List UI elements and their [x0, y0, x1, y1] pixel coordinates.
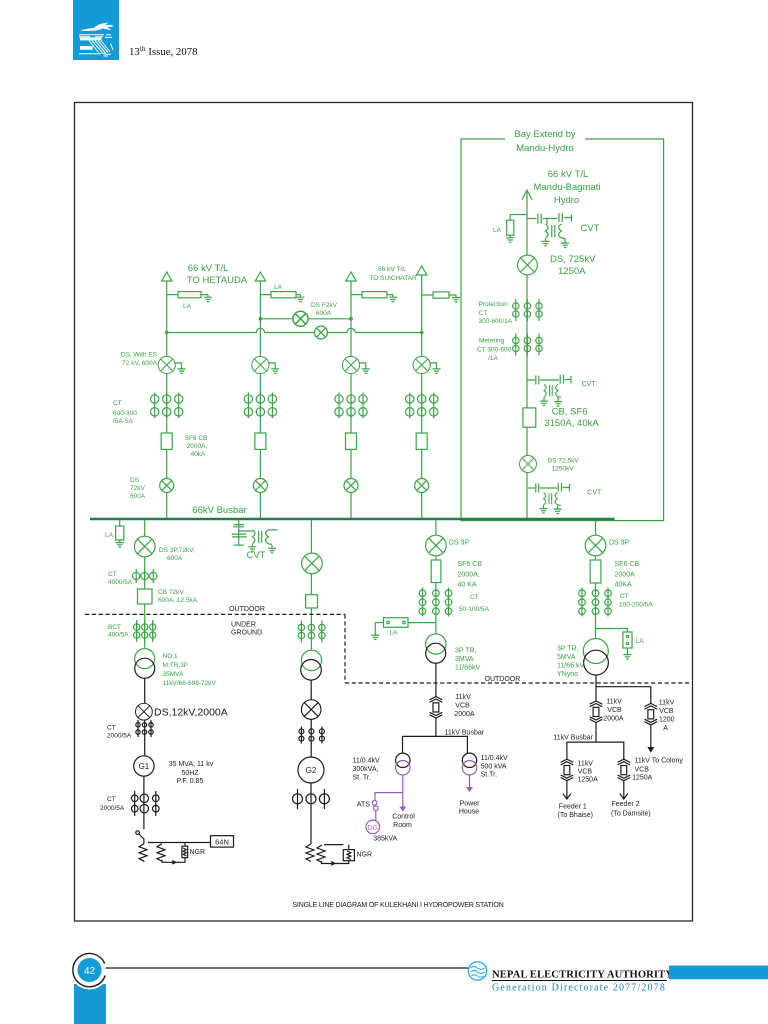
relay box 64N	[211, 836, 234, 847]
wire B2 vertical green	[310, 520, 312, 651]
svg-text:Hydro: Hydro	[554, 195, 579, 206]
transformer 3P TR 3MVA	[426, 634, 446, 654]
svg-text:St.Tr.: St.Tr.	[481, 772, 498, 779]
svg-text:Control: Control	[392, 814, 415, 821]
wire B4 black down + colony branch	[596, 675, 651, 703]
svg-text:YNyno: YNyno	[557, 671, 578, 678]
svg-text:2000A: 2000A	[454, 711, 475, 718]
wire LA branch Mandu	[510, 215, 527, 221]
svg-text:SINGLE LINE DIAGRAM OF KULEKHA: SINGLE LINE DIAGRAM OF KULEKHANI I HYDRO…	[292, 901, 503, 909]
svg-text:11kV Busbar: 11kV Busbar	[553, 735, 593, 742]
svg-text:VCB: VCB	[659, 708, 674, 715]
breaker SF6 CB T2	[255, 433, 266, 449]
svg-text:CVT: CVT	[581, 223, 600, 234]
svg-text:1250A: 1250A	[558, 266, 586, 277]
CT bay T1	[151, 393, 183, 419]
svg-text:Power: Power	[460, 801, 481, 808]
CT metering Mandu	[513, 333, 543, 355]
svg-text:CB, SF6: CB, SF6	[552, 407, 588, 418]
svg-text:2000A,: 2000A,	[187, 443, 208, 450]
CT bay T2	[244, 393, 276, 419]
svg-text:11kV/66-698-72kV: 11kV/66-698-72kV	[163, 680, 217, 687]
node junction T3 upper tie	[349, 317, 353, 321]
disconnector DS 3P B4	[585, 535, 606, 556]
svg-text:72 kV, 600A: 72 kV, 600A	[122, 360, 157, 367]
transformer St.Tr 300kVA	[396, 753, 410, 767]
surge arrester LA B3	[384, 618, 409, 628]
svg-text:VCB: VCB	[455, 703, 470, 710]
node: line arrow triangle T2	[255, 272, 265, 281]
svg-text:72kV: 72kV	[130, 485, 145, 492]
breaker CB SF6 Mandu	[523, 408, 536, 427]
svg-text:11/66kV: 11/66kV	[455, 665, 480, 672]
transformer No.2	[301, 650, 321, 670]
NGR branch G2	[324, 844, 343, 846]
svg-text:385kVA: 385kVA	[373, 836, 397, 843]
ground T3 LA	[389, 295, 397, 302]
svg-text:13th Issue, 2078: 13th Issue, 2078	[129, 44, 198, 58]
CT B3 (3 rows)	[419, 588, 452, 617]
surge arrester LA at busbar left	[119, 520, 121, 526]
breaker SF6 CB T4	[416, 433, 427, 449]
svg-text:11kV To Colony: 11kV To Colony	[635, 758, 684, 765]
svg-text:LA: LA	[183, 303, 192, 310]
svg-text:CVT: CVT	[582, 381, 597, 388]
breaker SF6 CB T1	[161, 433, 172, 449]
CT B2 upper	[299, 727, 325, 744]
svg-text:CT 300-600: CT 300-600	[477, 347, 512, 354]
disconnector DS 12kV black	[136, 703, 153, 720]
svg-text:P.F. 0.85: P.F. 0.85	[177, 778, 204, 785]
svg-text:DS,12kV,2000A: DS,12kV,2000A	[154, 707, 228, 719]
footer blue bar right	[669, 966, 768, 980]
svg-text:DS F2kV: DS F2kV	[311, 302, 338, 309]
svg-text:66kV Busbar: 66kV Busbar	[192, 505, 246, 516]
svg-text:House: House	[459, 809, 479, 816]
wire below G1	[143, 776, 145, 829]
BCT B2	[298, 621, 325, 643]
svg-text:SF6 CB: SF6 CB	[615, 561, 640, 568]
busbar 11kV B3	[403, 736, 468, 753]
CVT 3 Mandu	[528, 483, 570, 514]
svg-text:11/0.4kV: 11/0.4kV	[481, 755, 508, 762]
CT B4 (3 rows)	[579, 588, 612, 617]
svg-text:Protection: Protection	[479, 301, 509, 308]
breaker VCB 1250A feeder1	[561, 759, 574, 781]
wire LA branch T4	[422, 294, 456, 296]
footer blue tab	[74, 984, 106, 1024]
CVT at 66kV busbar	[232, 520, 278, 553]
svg-text:3P TR,: 3P TR,	[455, 648, 477, 655]
svg-text:600A: 600A	[130, 493, 146, 500]
svg-text:11kV: 11kV	[455, 694, 471, 701]
svg-text:Mandu-Hydro: Mandu-Hydro	[516, 143, 574, 154]
NGR coil 1 G2	[306, 844, 314, 862]
breaker SF6 CB T3	[346, 433, 357, 449]
svg-text:CVT: CVT	[247, 550, 266, 561]
svg-text:TO SUICHATAR: TO SUICHATAR	[369, 275, 417, 282]
disconnector DS with ES T1	[158, 356, 175, 373]
ground LA Mandu	[506, 235, 514, 242]
svg-text:NO.1: NO.1	[163, 653, 179, 660]
wire B1 vertical green	[144, 520, 146, 649]
svg-text:Feeder 1: Feeder 1	[559, 803, 587, 810]
wire LA branch T2	[260, 294, 300, 296]
generator G2	[298, 757, 324, 783]
NEA footer logo	[468, 962, 486, 980]
svg-text:UNDER: UNDER	[231, 621, 256, 628]
generator G1	[134, 756, 154, 776]
svg-text:400/5A: 400/5A	[108, 632, 129, 639]
svg-text:1200: 1200	[659, 717, 675, 724]
svg-text:5MVA: 5MVA	[557, 654, 576, 661]
svg-text:2000A: 2000A	[603, 716, 624, 723]
surge arrester LA T1	[178, 292, 201, 298]
disconnector DS with ES T2	[252, 356, 269, 373]
svg-text:CT: CT	[113, 400, 122, 407]
svg-text:/1A: /1A	[488, 355, 498, 362]
switch ATS	[372, 801, 377, 806]
svg-text:DS 3P: DS 3P	[449, 539, 470, 546]
svg-text:Room: Room	[393, 822, 412, 829]
svg-text:35 MVA; 11 kv: 35 MVA; 11 kv	[169, 761, 214, 768]
disconnector DS T3	[344, 479, 358, 493]
disconnector DS T2	[253, 479, 267, 493]
svg-text:2000A,: 2000A,	[458, 572, 480, 579]
svg-text:CT: CT	[620, 593, 629, 600]
svg-text:50HZ: 50HZ	[181, 770, 199, 777]
wire LA branch T3	[351, 294, 393, 296]
transformer 3P TR 5MVA	[583, 639, 608, 664]
svg-text:Generation Directorate 2077/20: Generation Directorate 2077/2078	[492, 983, 666, 994]
svg-text:VCB: VCB	[635, 766, 650, 773]
ground T4 LA	[452, 295, 460, 302]
wire LA branch B3	[408, 622, 436, 624]
disconnector DS B2 black	[301, 700, 321, 720]
transformer St.Tr 500kVA	[462, 753, 476, 767]
ground T2 LA	[296, 295, 304, 302]
svg-text:LA: LA	[274, 284, 283, 291]
wire B3 black vertical	[435, 663, 437, 696]
breaker CB 72kV B1	[138, 589, 153, 604]
svg-text:11kV Busbar: 11kV Busbar	[445, 730, 485, 737]
svg-text:4000/5A: 4000/5A	[108, 579, 133, 586]
svg-text:Bay Extend by: Bay Extend by	[514, 129, 576, 140]
svg-text:DS 3P,72kV,: DS 3P,72kV,	[159, 547, 195, 554]
wire bus tie lower with hops	[167, 328, 422, 332]
wire B4 vertical green	[595, 520, 597, 639]
surge arrester LA B4	[623, 632, 632, 648]
CT bay T4	[406, 393, 438, 419]
svg-text:LA: LA	[105, 532, 114, 539]
node: line arrow triangle T4	[417, 266, 427, 275]
switch on G1 neutral	[136, 831, 140, 835]
wire purple control room	[375, 775, 403, 807]
transformer M.TR No.1	[135, 649, 155, 669]
svg-text:DS: DS	[130, 477, 140, 484]
svg-text:1250kV: 1250kV	[552, 466, 575, 473]
disconnector DS B2	[302, 553, 323, 574]
CVT 2 Mandu	[527, 375, 571, 406]
svg-text:66 kV T/L: 66 kV T/L	[548, 169, 589, 180]
svg-text:G2: G2	[306, 766, 317, 775]
disconnector DS 72.5kV Mandu	[520, 456, 537, 473]
wire B1 black vertical	[144, 678, 146, 756]
CT 2000/5A lower B1	[131, 791, 159, 816]
svg-text:CT: CT	[108, 571, 117, 578]
surge arrester LA T4	[433, 292, 449, 298]
disconnector DS F2kV on upper tie	[293, 311, 308, 326]
svg-text:1250A: 1250A	[632, 775, 653, 782]
breaker VCB 2000A B3	[430, 697, 443, 719]
svg-text:Metering: Metering	[479, 338, 505, 345]
node junction T2 upper tie	[259, 317, 263, 321]
wire LA branch B4	[596, 629, 628, 633]
BCT 400/5A B1	[134, 620, 156, 642]
svg-text:CT: CT	[470, 594, 479, 601]
svg-text:600-300: 600-300	[113, 410, 137, 417]
svg-text:DS 3P: DS 3P	[609, 539, 630, 546]
busbar 66kV	[90, 518, 615, 521]
svg-text:LA: LA	[493, 227, 502, 234]
CT bay T3	[335, 393, 367, 419]
wire arrow feeder1	[563, 781, 571, 799]
svg-text:OUTDOOR: OUTDOOR	[229, 606, 265, 613]
svg-text:11kV: 11kV	[606, 699, 622, 706]
svg-text:50-100/5A: 50-100/5A	[459, 606, 490, 613]
wire to 11kV busbar B3	[435, 718, 437, 736]
boundary dashed line left	[85, 614, 690, 683]
svg-text:Mandu-Bagmati: Mandu-Bagmati	[533, 182, 600, 193]
svg-text:(To Bhaise): (To Bhaise)	[558, 812, 593, 819]
svg-text:CT: CT	[107, 796, 116, 803]
svg-text:DG: DG	[368, 825, 378, 832]
disconnector DS with ES T4	[413, 356, 430, 373]
page number circle	[73, 954, 105, 987]
wire arrow power house	[469, 775, 471, 788]
wire bay T3 vertical	[350, 281, 352, 519]
svg-text:OUTDOOR: OUTDOOR	[485, 676, 521, 683]
svg-text:DS, With ES: DS, With ES	[121, 351, 158, 358]
footer rule	[106, 967, 469, 969]
svg-text:66 kV T/L: 66 kV T/L	[378, 266, 406, 273]
svg-text:Feeder 2: Feeder 2	[612, 801, 640, 808]
wire arrow feeder2	[620, 781, 628, 799]
wire ATS to DG	[375, 811, 377, 821]
svg-text:2000/5A: 2000/5A	[107, 733, 132, 740]
disconnector DS with ES T3	[342, 356, 359, 373]
svg-text:42: 42	[84, 966, 96, 977]
box Bay Extend by Mandu-Hydro	[461, 139, 664, 521]
NGR coil 2 G2	[317, 845, 325, 863]
busbar 11kV B4	[567, 742, 624, 759]
surge arrester LA Mandu	[507, 220, 514, 235]
wire B2 black vertical	[310, 680, 312, 757]
svg-text:3150A, 40kA: 3150A, 40kA	[544, 418, 599, 429]
svg-text:2000/5A: 2000/5A	[100, 805, 125, 812]
header blue logo box	[73, 0, 119, 60]
wire bus tie upper	[260, 318, 351, 320]
CVT 1 Mandu (capacitor stack + windings)	[527, 213, 572, 248]
disconnector DS 3P B3	[426, 535, 447, 556]
svg-text:11/66 kV: 11/66 kV	[557, 663, 584, 670]
wire VCB to 11kV busbar B4	[595, 723, 597, 743]
svg-text:M.TR,3P: M.TR,3P	[163, 662, 189, 669]
svg-text:300-600/1A: 300-600/1A	[479, 318, 513, 325]
svg-text:500 kVA: 500 kVA	[481, 763, 507, 770]
svg-text:300kVA,: 300kVA,	[353, 766, 379, 773]
breaker SF6 CB B4	[590, 560, 601, 583]
wire NGR bottom G1	[162, 858, 185, 865]
svg-text:A: A	[663, 725, 668, 732]
wire B3 vertical green	[435, 520, 437, 634]
svg-text:GROUND: GROUND	[231, 630, 262, 637]
generator DG 385kVA	[366, 820, 380, 834]
wire bay T4 vertical	[421, 275, 423, 519]
wire Mandu bay vertical with arrow up	[522, 190, 532, 519]
svg-text:SF6 CB: SF6 CB	[185, 435, 208, 442]
resistor NGR box G2	[343, 850, 354, 861]
svg-text:CVT: CVT	[587, 489, 602, 496]
node: line arrow triangle T1	[162, 272, 172, 281]
node: line arrow triangle T3	[346, 272, 356, 281]
NGR coil 1 G1	[139, 844, 147, 862]
svg-text:LA: LA	[636, 638, 645, 645]
ground T1 LA	[204, 295, 212, 302]
main border box	[75, 103, 693, 922]
svg-text:G1: G1	[139, 762, 150, 771]
svg-text:SF6 CB: SF6 CB	[458, 561, 483, 568]
svg-text:BCT: BCT	[108, 624, 121, 631]
svg-text:DS 72.5kV: DS 72.5kV	[548, 457, 580, 464]
wire LA branch T1	[167, 294, 208, 296]
svg-text:11kV: 11kV	[578, 761, 594, 768]
svg-text:2000A: 2000A	[615, 572, 636, 579]
node junction T1 tie	[165, 331, 169, 335]
svg-text:LA: LA	[390, 630, 399, 637]
svg-text:NGR: NGR	[357, 852, 373, 859]
CT 2000/5A upper B1	[136, 720, 153, 737]
CT protection Mandu	[513, 299, 543, 321]
CT lower B2	[293, 789, 330, 809]
node junction T4 tie	[420, 331, 424, 335]
wire arrow colony	[650, 725, 652, 748]
disconnector DS 725kV Mandu	[518, 255, 538, 275]
svg-text:11/0.4kV: 11/0.4kV	[353, 758, 380, 765]
svg-text:/5A-5A: /5A-5A	[113, 418, 134, 425]
breaker CB B2	[306, 595, 318, 608]
svg-text:1250A: 1250A	[578, 777, 599, 784]
disconnector DS T1	[160, 479, 174, 493]
resistor NGR box G1	[184, 843, 186, 847]
disconnector on lower tie	[315, 326, 328, 339]
svg-text:100-200/5A: 100-200/5A	[619, 602, 653, 609]
svg-text:11kV: 11kV	[659, 700, 675, 707]
svg-text:NEPAL ELECTRICITY AUTHORITY: NEPAL ELECTRICITY AUTHORITY	[492, 970, 673, 981]
disconnector DS 3P B1	[134, 536, 155, 557]
breaker VCB 1250A feeder2	[618, 759, 631, 781]
svg-text:40KA: 40KA	[615, 582, 632, 589]
NGR coil 2 G1	[157, 844, 165, 862]
NGR branch G1	[148, 842, 211, 844]
svg-text:600A: 600A	[167, 555, 183, 562]
breaker SF6 CB B3	[431, 560, 441, 583]
svg-text:CT: CT	[107, 725, 116, 732]
svg-text:35MVA: 35MVA	[163, 671, 184, 678]
svg-text:ATS: ATS	[357, 802, 370, 809]
NEA dam logo (white)	[79, 23, 114, 57]
svg-text:CB 72kV: CB 72kV	[158, 589, 184, 596]
svg-text:3P TR,: 3P TR,	[557, 646, 579, 653]
svg-text:St. Tr.: St. Tr.	[353, 775, 371, 782]
wire bay T2 vertical	[259, 281, 261, 519]
svg-text:600A: 600A	[316, 310, 332, 317]
svg-text:64N: 64N	[215, 837, 229, 846]
svg-text:VCB: VCB	[578, 768, 593, 775]
svg-text:3MVA: 3MVA	[455, 656, 474, 663]
svg-text:66 kV T/L: 66 kV T/L	[188, 263, 229, 274]
svg-text:NGR: NGR	[190, 849, 206, 856]
svg-text:600A, 12.5kA: 600A, 12.5kA	[158, 597, 198, 604]
breaker VCB 1200A colony	[645, 703, 658, 725]
surge arrester LA T3	[362, 292, 387, 298]
wire NGR bottom G2	[322, 861, 349, 865]
disconnector DS T4	[415, 479, 429, 493]
svg-text:40kA: 40kA	[191, 451, 206, 458]
svg-text:(To Damsite): (To Damsite)	[611, 810, 651, 817]
surge arrester LA T2	[271, 292, 296, 298]
CT 4000/5A B1	[133, 569, 157, 583]
wire bay T1 vertical	[166, 281, 168, 519]
svg-text:CT: CT	[479, 310, 488, 317]
wire below G2	[310, 783, 312, 844]
svg-text:VCB: VCB	[607, 707, 622, 714]
svg-text:DS, 725kV: DS, 725kV	[550, 254, 596, 265]
svg-text:40 KA: 40 KA	[458, 582, 477, 589]
svg-text:TO HETAUDA: TO HETAUDA	[187, 275, 248, 286]
breaker VCB 2000A B4	[590, 701, 603, 723]
